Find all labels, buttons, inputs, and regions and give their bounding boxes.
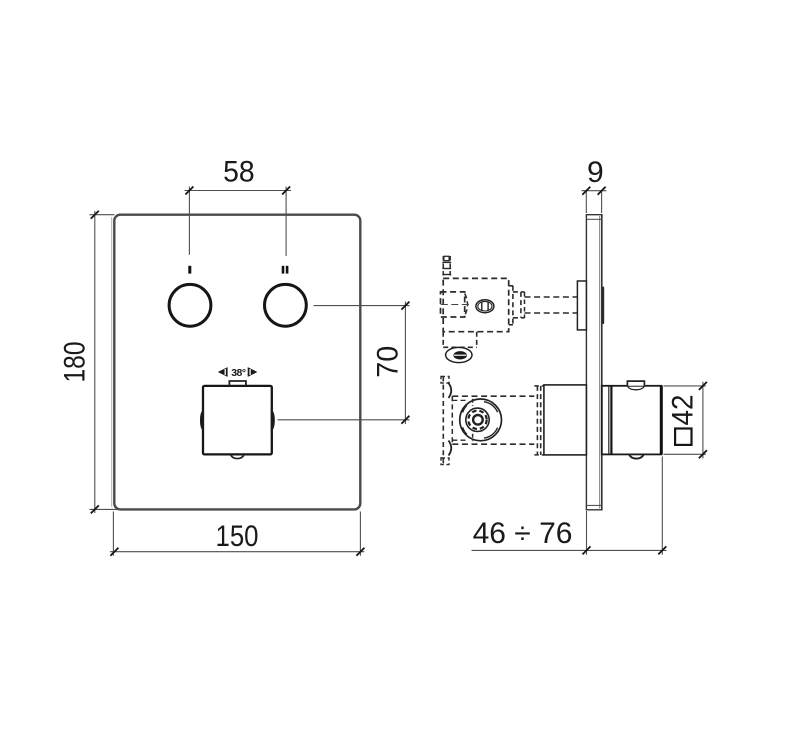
lower bracket plate (442, 376, 444, 464)
upper valve stem (525, 296, 578, 298)
upper valve body hidden outline (443, 278, 509, 331)
side plate top inner line (586, 218, 601, 220)
dimension 42 line (702, 382, 704, 459)
dimension 46-76 extension left (586, 511, 588, 555)
knob II (265, 284, 307, 326)
lower flange ring hidden (536, 386, 538, 455)
svg-text:150: 150 (216, 520, 259, 553)
tick 42 top (699, 382, 707, 390)
lower valve body hidden outline (452, 395, 534, 397)
dimension 180 extension bottom (90, 508, 121, 510)
upper valve outlet flange nut (446, 347, 472, 362)
thermostat knurled ring (466, 408, 489, 431)
side plate bottom inner line (586, 504, 601, 506)
svg-text:9: 9 (587, 156, 604, 189)
dimension 70 leader bottom (278, 419, 410, 421)
thermostat dome (460, 399, 502, 441)
extension 58 right (285, 187, 287, 256)
upper valve top stub (442, 256, 444, 278)
lower knob bottom button (629, 455, 643, 459)
dimension 42 extension top (664, 385, 706, 387)
dimension 70 leader top (314, 305, 410, 307)
upper valve sleeve (577, 281, 586, 330)
tick 180 top (91, 211, 99, 219)
38 degree indicator right arrow (248, 367, 258, 377)
dimension 150 line (110, 551, 364, 553)
temperature knob bottom button (230, 455, 244, 459)
dimension 46-76 line (472, 549, 667, 551)
upper valve screw boss (476, 300, 494, 313)
tick 9 right (598, 187, 606, 195)
svg-text:46 ÷ 76: 46 ÷ 76 (473, 517, 573, 550)
lower bracket flange curves (449, 383, 452, 398)
knob I (169, 284, 211, 326)
side plate bottom edge (586, 509, 603, 511)
dimension 180 extension top (90, 214, 115, 216)
lower knob collar (608, 386, 610, 455)
lower knob body (602, 386, 662, 455)
lower cylinder (544, 385, 587, 455)
tick 46-76 right (658, 546, 666, 554)
label square42 (675, 429, 691, 445)
dimension 9 extensions (585, 191, 587, 213)
svg-text:70: 70 (371, 346, 404, 378)
tick 150 left (110, 548, 118, 556)
dimension 42 extension bottom (664, 453, 706, 455)
temperature knob top notch (229, 381, 246, 386)
dimension 70 line (404, 302, 406, 425)
mark II (282, 266, 285, 274)
tick 180 bottom (91, 505, 99, 513)
lower knob face edge (660, 386, 663, 455)
temperature knob square (203, 386, 272, 455)
svg-text:180: 180 (59, 342, 92, 383)
upper valve outlet elbow (442, 332, 444, 348)
temperature knob left grip (201, 410, 204, 431)
tick 42 bottom (699, 450, 707, 458)
side plate right edge (601, 215, 603, 510)
tick 70 bottom (401, 416, 409, 424)
tick 9 left (582, 187, 590, 195)
front plate (111, 217, 113, 507)
tick 58 right (282, 187, 290, 195)
thermostat center (473, 415, 483, 425)
upper valve inlet centerline (441, 304, 469, 306)
upper knob edge-on (602, 287, 604, 325)
side plate top edge (586, 214, 603, 216)
temperature knob right grip (271, 410, 274, 431)
extension 58 left (188, 187, 190, 255)
dimension 180 line (94, 211, 96, 513)
upper valve flange step 1 (509, 285, 513, 287)
tick 70 top (401, 302, 409, 310)
tick 46-76 left (583, 546, 591, 554)
tick 150 right (356, 548, 364, 556)
tick 58 left (185, 187, 193, 195)
upper valve flange step 2 (513, 291, 525, 293)
dimension 150 extension left (112, 512, 114, 556)
dimension 150 extension right (359, 512, 361, 556)
upper valve inlet port (441, 292, 465, 317)
dimension 46-76 extension right (661, 457, 663, 555)
dimension 58 line (185, 190, 292, 192)
side plate face line (599, 216, 601, 509)
38 degree indicator left arrow (218, 367, 228, 377)
svg-text:58: 58 (223, 156, 255, 189)
dimension 9 line (582, 190, 607, 192)
side plate left edge (585, 215, 587, 510)
svg-text:42: 42 (667, 395, 700, 426)
lower knob top tab (627, 381, 644, 386)
svg-text:38°: 38° (231, 367, 246, 379)
mark I (188, 266, 191, 274)
